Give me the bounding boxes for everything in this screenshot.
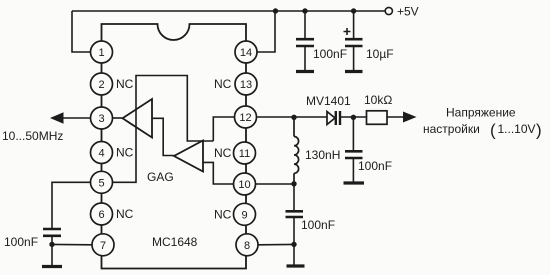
svg-text:GAG: GAG bbox=[147, 170, 174, 184]
svg-text:11: 11 bbox=[239, 148, 250, 160]
capacitor C4 100nF (below L1) bbox=[286, 184, 336, 266]
wire pin5 feedback loop over the top bbox=[112, 76, 213, 183]
capacitor C3 100nF (right of varactor) bbox=[345, 117, 392, 183]
node junction C5 / pin7 wire bbox=[49, 242, 54, 247]
svg-text:1...10V: 1...10V bbox=[498, 122, 536, 136]
svg-text:NC: NC bbox=[116, 146, 134, 160]
ground bar under C1 bbox=[296, 70, 314, 73]
svg-text:NC: NC bbox=[214, 146, 232, 160]
op-amp A1 (buffer) bbox=[123, 99, 153, 138]
pin 8 bbox=[236, 234, 258, 256]
ground bar under C3 bbox=[344, 181, 365, 184]
pin 7 bbox=[92, 234, 114, 256]
svg-text:5: 5 bbox=[98, 177, 104, 189]
wire pin10 to A2 lower input bbox=[203, 162, 233, 184]
op-amp U1 MC1648 body bbox=[102, 24, 247, 269]
svg-text:9: 9 bbox=[241, 209, 247, 221]
svg-text:100nF: 100nF bbox=[313, 47, 347, 61]
wire rail left drop to pin 1 bbox=[72, 11, 91, 52]
wire pin12 to A2 upper input bbox=[213, 117, 234, 141]
wire R1 to tuning input arrow bbox=[387, 116, 404, 118]
svg-text:MC1648: MC1648 bbox=[152, 235, 198, 249]
ground bar under C4 bbox=[287, 264, 305, 267]
svg-text:100nF: 100nF bbox=[4, 235, 38, 249]
pin 1 bbox=[91, 41, 113, 63]
svg-text:Напряжение: Напряжение bbox=[446, 106, 516, 120]
wire pin3 output to arrow bbox=[62, 117, 91, 119]
capacitor C2 10uF (polarized) bbox=[344, 11, 394, 71]
wire pin3 to buffer A1 tip bbox=[113, 117, 123, 119]
capacitor C1 100nF (top) bbox=[296, 11, 347, 71]
svg-text:100nF: 100nF bbox=[301, 218, 335, 232]
svg-text:8: 8 bbox=[244, 240, 250, 252]
pin 9 bbox=[234, 203, 256, 225]
capacitor C5 100nF (bottom left) bbox=[4, 229, 61, 266]
svg-text:10...50MHz: 10...50MHz bbox=[2, 129, 63, 143]
wire varactor to junction bbox=[340, 116, 367, 118]
svg-text:13: 13 bbox=[240, 79, 252, 91]
svg-text:2: 2 bbox=[98, 79, 104, 91]
svg-text:NC: NC bbox=[214, 207, 232, 221]
svg-text:130nH: 130nH bbox=[305, 148, 340, 162]
node junction on rail at C2 bbox=[351, 8, 356, 13]
pin 4 bbox=[91, 142, 113, 164]
svg-text:10kΩ: 10kΩ bbox=[364, 93, 392, 107]
node junction pin12/L1 bbox=[291, 115, 296, 120]
node junction on rail at pin14 riser bbox=[273, 8, 278, 13]
svg-text:10: 10 bbox=[238, 179, 250, 191]
pin 6 bbox=[91, 203, 113, 225]
pin 10 bbox=[234, 173, 256, 195]
svg-text:NC: NC bbox=[214, 77, 232, 91]
transistor D1 varactor MV1401 bbox=[327, 111, 340, 125]
svg-text:100nF: 100nF bbox=[358, 159, 392, 173]
svg-text:14: 14 bbox=[240, 47, 252, 59]
ground bar under C5 bbox=[42, 265, 62, 268]
svg-text:NC: NC bbox=[116, 207, 134, 221]
svg-text:4: 4 bbox=[98, 148, 104, 160]
inductor L1 130nH bbox=[294, 117, 299, 184]
svg-text:3: 3 bbox=[98, 113, 104, 125]
wire pin10 right to L1 bottom junction bbox=[255, 183, 294, 185]
svg-text:+5V: +5V bbox=[397, 5, 419, 19]
op-amp A2 (buffer) bbox=[174, 141, 203, 172]
node output arrow left bbox=[50, 112, 64, 123]
svg-text:7: 7 bbox=[100, 240, 106, 252]
node tuning input arrow bbox=[403, 112, 417, 123]
svg-text:MV1401: MV1401 bbox=[306, 94, 351, 108]
node junction pin8/C4 bbox=[291, 242, 296, 247]
pin 3 bbox=[91, 107, 113, 129]
wire pin12 right to varactor bbox=[257, 116, 328, 118]
wire top +5V rail bbox=[72, 10, 385, 12]
pin 5 bbox=[91, 171, 113, 193]
pin 14 bbox=[235, 41, 257, 63]
svg-text:): ) bbox=[536, 121, 542, 140]
wire A2 output to A1 input bbox=[152, 118, 174, 155]
terminal +5V bbox=[385, 7, 392, 14]
pin 12 bbox=[235, 106, 257, 128]
node junction on rail at C1 bbox=[302, 8, 307, 13]
pin 11 bbox=[234, 142, 256, 164]
ground bar under C2 bbox=[345, 70, 363, 73]
svg-text:1: 1 bbox=[98, 47, 104, 59]
node junction L1/C4 bbox=[291, 181, 296, 186]
svg-text:(: ( bbox=[490, 121, 496, 140]
pin 13 bbox=[235, 73, 257, 95]
wire C5 junction to pin 7 bbox=[52, 243, 92, 245]
svg-text:настройки: настройки bbox=[423, 122, 480, 136]
wire pin5 left to C5 bbox=[52, 182, 91, 228]
svg-text:NC: NC bbox=[116, 77, 134, 91]
svg-text:10µF: 10µF bbox=[366, 47, 394, 61]
resistor R1 10k bbox=[367, 111, 388, 125]
node junction D1/R1/C3 bbox=[351, 115, 356, 120]
svg-text:6: 6 bbox=[98, 209, 104, 221]
wire pin 14 riser to rail bbox=[257, 11, 275, 52]
wire pin8 to C4 lower junction bbox=[259, 243, 295, 245]
pin 2 bbox=[91, 73, 113, 95]
svg-text:12: 12 bbox=[239, 112, 251, 124]
